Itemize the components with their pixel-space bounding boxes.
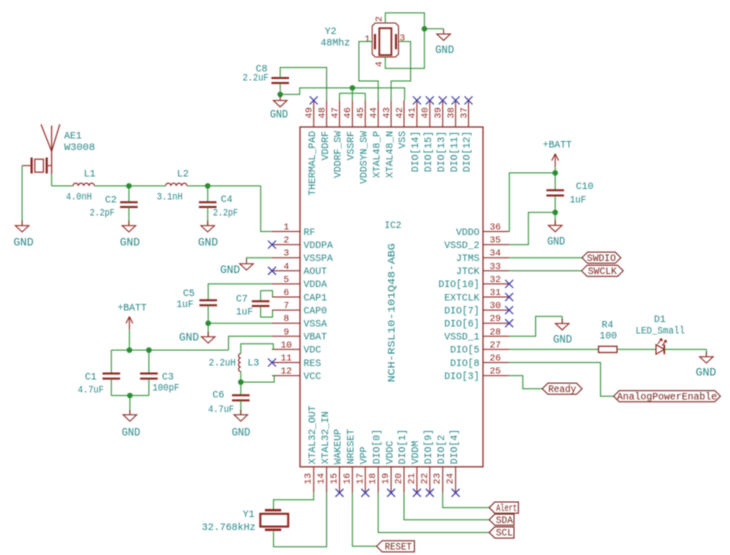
svg-text:LED_Small: LED_Small bbox=[636, 325, 685, 336]
svg-text:4.7uF: 4.7uF bbox=[78, 384, 104, 395]
svg-text:DIO[4]: DIO[4] bbox=[449, 429, 460, 464]
svg-text:GND: GND bbox=[179, 333, 199, 345]
svg-text:C7: C7 bbox=[236, 294, 248, 305]
svg-text:EXTCLK: EXTCLK bbox=[444, 292, 479, 303]
svg-text:VSS: VSS bbox=[397, 131, 408, 149]
svg-text:VPP: VPP bbox=[359, 447, 370, 465]
svg-text:D1: D1 bbox=[654, 314, 666, 325]
svg-text:VDDSYN_SW: VDDSYN_SW bbox=[359, 131, 370, 184]
svg-text:DIO[3]: DIO[3] bbox=[444, 371, 479, 382]
svg-text:6: 6 bbox=[283, 287, 289, 298]
svg-text:32: 32 bbox=[490, 274, 501, 285]
svg-text:37: 37 bbox=[458, 107, 469, 118]
svg-text:40: 40 bbox=[420, 107, 431, 119]
svg-text:30: 30 bbox=[490, 300, 502, 311]
svg-text:Y2: Y2 bbox=[325, 26, 337, 37]
svg-text:GND: GND bbox=[547, 236, 565, 248]
svg-text:Alert: Alert bbox=[496, 503, 517, 514]
svg-text:WAKEUP: WAKEUP bbox=[333, 429, 344, 464]
svg-text:THERMAL_PAD: THERMAL_PAD bbox=[307, 131, 318, 196]
svg-text:46: 46 bbox=[342, 107, 353, 119]
svg-text:DIO[5: DIO[5 bbox=[450, 345, 480, 356]
svg-text:1uF: 1uF bbox=[177, 299, 194, 310]
svg-text:JTCK: JTCK bbox=[456, 266, 480, 277]
svg-text:44: 44 bbox=[368, 107, 379, 119]
svg-text:JTMS: JTMS bbox=[456, 253, 480, 264]
svg-text:GND: GND bbox=[270, 109, 288, 121]
svg-text:C5: C5 bbox=[183, 288, 195, 299]
svg-text:22: 22 bbox=[419, 473, 430, 484]
svg-text:W3008: W3008 bbox=[64, 142, 95, 153]
svg-text:2: 2 bbox=[283, 235, 289, 246]
svg-text:GND: GND bbox=[120, 238, 140, 250]
svg-text:AE1: AE1 bbox=[64, 131, 82, 142]
svg-text:C2: C2 bbox=[105, 194, 117, 205]
svg-text:3: 3 bbox=[283, 248, 289, 259]
svg-text:DIO[12]: DIO[12] bbox=[462, 131, 473, 172]
svg-text:VSSD_2: VSSD_2 bbox=[444, 240, 479, 251]
svg-text:L3: L3 bbox=[248, 357, 260, 368]
svg-text:DIO[0]: DIO[0] bbox=[371, 429, 382, 464]
svg-text:VSSA: VSSA bbox=[304, 319, 328, 330]
svg-text:35: 35 bbox=[490, 235, 502, 246]
svg-text:2.2pF: 2.2pF bbox=[213, 208, 238, 219]
svg-text:GND: GND bbox=[198, 238, 218, 250]
svg-text:Ready: Ready bbox=[548, 384, 576, 395]
svg-text:14: 14 bbox=[316, 473, 327, 485]
svg-text:DIO[14]: DIO[14] bbox=[410, 131, 421, 172]
svg-text:SWDIO: SWDIO bbox=[587, 253, 616, 264]
svg-text:32.768kHz: 32.768kHz bbox=[202, 522, 256, 533]
svg-text:DIO[8: DIO[8 bbox=[450, 358, 480, 369]
svg-text:16: 16 bbox=[341, 473, 352, 485]
svg-text:42: 42 bbox=[394, 107, 405, 118]
svg-text:XTAL48_N: XTAL48_N bbox=[384, 131, 395, 178]
svg-text:1uF: 1uF bbox=[236, 306, 253, 317]
svg-text:SDA: SDA bbox=[496, 515, 513, 526]
svg-text:+BATT: +BATT bbox=[543, 140, 572, 152]
svg-text:L1: L1 bbox=[84, 168, 96, 179]
svg-text:IC2: IC2 bbox=[385, 220, 402, 231]
svg-text:GND: GND bbox=[435, 45, 454, 57]
svg-text:29: 29 bbox=[490, 313, 501, 324]
svg-text:34: 34 bbox=[490, 248, 502, 259]
svg-text:25: 25 bbox=[490, 366, 502, 377]
svg-text:RESET: RESET bbox=[385, 542, 412, 553]
svg-text:2.2uF: 2.2uF bbox=[243, 72, 269, 83]
svg-text:L2: L2 bbox=[177, 168, 189, 179]
svg-text:4: 4 bbox=[283, 261, 289, 272]
svg-text:43: 43 bbox=[381, 107, 392, 119]
svg-text:7: 7 bbox=[283, 300, 289, 311]
svg-text:RES: RES bbox=[304, 358, 322, 369]
svg-text:VSSD_1: VSSD_1 bbox=[444, 332, 479, 343]
svg-text:VSSPA: VSSPA bbox=[304, 253, 334, 264]
svg-text:12: 12 bbox=[281, 366, 292, 377]
svg-text:31: 31 bbox=[490, 287, 502, 298]
svg-text:2.2pF: 2.2pF bbox=[90, 208, 115, 219]
svg-text:VDDPA: VDDPA bbox=[304, 240, 334, 251]
svg-text:VSSRF: VSSRF bbox=[346, 131, 357, 161]
svg-text:100pF: 100pF bbox=[152, 383, 179, 394]
svg-text:11: 11 bbox=[281, 353, 293, 364]
svg-text:DIO[15]: DIO[15] bbox=[423, 131, 434, 172]
svg-text:GND: GND bbox=[220, 265, 240, 277]
svg-text:VDDM: VDDM bbox=[410, 441, 421, 465]
svg-text:21: 21 bbox=[406, 473, 417, 485]
svg-text:DIO[9]: DIO[9] bbox=[423, 429, 434, 464]
svg-text:GND: GND bbox=[232, 428, 251, 440]
svg-text:CAP1: CAP1 bbox=[304, 292, 328, 303]
svg-text:26: 26 bbox=[490, 353, 502, 364]
svg-text:C6: C6 bbox=[213, 389, 225, 400]
svg-text:DIO[7]: DIO[7] bbox=[444, 305, 479, 316]
svg-text:VDDO: VDDO bbox=[456, 227, 480, 238]
svg-text:28: 28 bbox=[490, 326, 502, 337]
svg-text:VDDRF_SW: VDDRF_SW bbox=[333, 131, 344, 178]
svg-text:VBAT: VBAT bbox=[304, 332, 328, 343]
svg-text:VDDA: VDDA bbox=[304, 279, 328, 290]
svg-text:VDDRF: VDDRF bbox=[320, 131, 331, 161]
svg-text:DIO[13]: DIO[13] bbox=[436, 131, 447, 172]
svg-text:45: 45 bbox=[355, 107, 366, 119]
svg-text:NRESET: NRESET bbox=[346, 429, 357, 464]
svg-text:AOUT: AOUT bbox=[304, 266, 328, 277]
svg-text:15: 15 bbox=[329, 473, 340, 485]
svg-text:DIO[2: DIO[2 bbox=[436, 435, 447, 465]
svg-text:SCL: SCL bbox=[496, 528, 513, 539]
svg-text:DIO[6]: DIO[6] bbox=[444, 319, 479, 330]
svg-text:GND: GND bbox=[122, 427, 141, 439]
svg-text:1: 1 bbox=[283, 222, 289, 233]
svg-text:C3: C3 bbox=[162, 371, 174, 382]
svg-text:8: 8 bbox=[283, 313, 289, 324]
svg-text:C4: C4 bbox=[221, 194, 233, 205]
svg-text:47: 47 bbox=[329, 107, 340, 118]
svg-text:Y1: Y1 bbox=[243, 509, 255, 520]
svg-text:DIO[1]: DIO[1] bbox=[397, 429, 408, 464]
svg-text:NCH-RSL10-101Q48-ABG: NCH-RSL10-101Q48-ABG bbox=[386, 243, 397, 382]
svg-text:4: 4 bbox=[374, 61, 385, 67]
svg-text:GND: GND bbox=[553, 335, 572, 347]
svg-text:39: 39 bbox=[433, 107, 444, 118]
svg-text:2.2uH: 2.2uH bbox=[209, 357, 236, 368]
svg-text:23: 23 bbox=[432, 473, 443, 485]
svg-text:24: 24 bbox=[445, 473, 456, 485]
svg-text:18: 18 bbox=[367, 473, 378, 485]
svg-text:48: 48 bbox=[316, 107, 327, 119]
svg-text:33: 33 bbox=[490, 261, 502, 272]
svg-text:4.0nH: 4.0nH bbox=[66, 191, 92, 202]
svg-text:20: 20 bbox=[393, 473, 404, 485]
svg-text:CAP0: CAP0 bbox=[304, 305, 328, 316]
svg-text:38: 38 bbox=[445, 107, 456, 119]
svg-text:13: 13 bbox=[303, 473, 314, 485]
svg-text:+BATT: +BATT bbox=[117, 302, 146, 314]
svg-text:19: 19 bbox=[380, 473, 391, 484]
svg-text:49: 49 bbox=[304, 107, 315, 118]
svg-text:C10: C10 bbox=[576, 181, 594, 192]
svg-text:VDC: VDC bbox=[304, 345, 322, 356]
svg-text:100: 100 bbox=[600, 331, 618, 342]
svg-text:XTAL48_P: XTAL48_P bbox=[371, 131, 382, 178]
svg-text:4.7uF: 4.7uF bbox=[208, 404, 234, 415]
svg-text:48Mhz: 48Mhz bbox=[321, 38, 351, 49]
svg-text:27: 27 bbox=[490, 339, 501, 350]
svg-text:2: 2 bbox=[373, 16, 384, 22]
svg-text:VDDC: VDDC bbox=[384, 441, 395, 465]
svg-text:3.1nH: 3.1nH bbox=[157, 191, 183, 202]
svg-text:9: 9 bbox=[283, 326, 289, 337]
svg-text:RF: RF bbox=[304, 227, 316, 238]
svg-text:SWCLK: SWCLK bbox=[588, 266, 617, 277]
svg-text:DIO[11]: DIO[11] bbox=[449, 131, 460, 172]
svg-text:DIO[10]: DIO[10] bbox=[438, 279, 479, 290]
svg-text:17: 17 bbox=[354, 473, 365, 484]
svg-text:1uF: 1uF bbox=[570, 194, 587, 205]
svg-text:41: 41 bbox=[407, 107, 418, 119]
svg-text:AnalogPowerEnable: AnalogPowerEnable bbox=[617, 391, 717, 402]
svg-text:GND: GND bbox=[14, 238, 34, 250]
svg-text:1: 1 bbox=[365, 33, 371, 44]
svg-text:XTAL32_IN: XTAL32_IN bbox=[320, 411, 331, 464]
svg-text:10: 10 bbox=[281, 339, 293, 350]
svg-text:VCC: VCC bbox=[304, 371, 322, 382]
svg-text:C1: C1 bbox=[85, 371, 97, 382]
svg-text:R4: R4 bbox=[602, 319, 614, 330]
svg-text:GND: GND bbox=[696, 367, 717, 379]
svg-text:XTAL32_OUT: XTAL32_OUT bbox=[307, 405, 318, 464]
svg-text:36: 36 bbox=[490, 222, 502, 233]
svg-text:5: 5 bbox=[283, 274, 289, 285]
